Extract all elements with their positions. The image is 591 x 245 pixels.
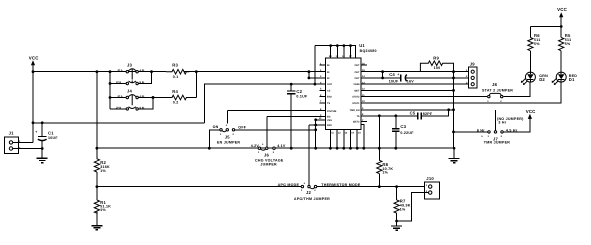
wire VSET row to U1 xyxy=(267,116,326,118)
svg-text:VCC: VCC xyxy=(526,109,536,114)
svg-text:OUT: OUT xyxy=(354,71,360,74)
left stubs xyxy=(320,65,326,103)
jumper J3 (4-pin current-set block, top) xyxy=(109,63,153,109)
power VCC (LED) xyxy=(557,7,567,28)
svg-text:J6: J6 xyxy=(264,153,270,158)
jumper J2 (APG/THM jumper) xyxy=(278,125,361,201)
svg-text:10UF: 10UF xyxy=(389,79,399,83)
ground (rail end) xyxy=(449,148,460,163)
wire VCC rail (top) xyxy=(33,71,326,73)
resistor R3 0.1 xyxy=(139,63,198,79)
connector J9 xyxy=(466,62,477,89)
svg-text:TMR JUMPER: TMR JUMPER xyxy=(484,141,510,145)
svg-text:4.2V: 4.2V xyxy=(251,144,260,148)
svg-text:C4: C4 xyxy=(389,72,395,77)
node APG divider junction xyxy=(96,185,99,188)
svg-text:VSS: VSS xyxy=(327,119,332,122)
svg-text:CE: CE xyxy=(327,90,331,93)
capacitor C3 0.22UF xyxy=(392,116,414,150)
svg-text:J1: J1 xyxy=(9,131,15,136)
svg-text:1%: 1% xyxy=(100,208,106,212)
resistor R4 0.2 xyxy=(139,72,197,105)
resistor R7 49.9K xyxy=(394,187,411,226)
svg-text:B IN: B IN xyxy=(140,106,145,109)
wire THM line (J2 to R8/J10) xyxy=(317,186,424,188)
svg-text:IN: IN xyxy=(327,77,330,80)
svg-text:1%: 1% xyxy=(382,171,388,175)
svg-text:JUMPER: JUMPER xyxy=(260,163,277,167)
svg-text:ISET: ISET xyxy=(354,90,360,93)
svg-text:J3: J3 xyxy=(127,63,133,68)
svg-text:R9: R9 xyxy=(433,55,439,60)
wire R2 to R1 xyxy=(96,172,98,200)
wire ground rail (VSS) xyxy=(97,147,454,149)
wire J1 pin2 to C1/ground xyxy=(13,148,43,150)
svg-text:OUT: OUT xyxy=(354,64,360,67)
wire master column (R9 node to ground) xyxy=(453,63,455,148)
svg-text:C1: C1 xyxy=(48,130,54,135)
svg-text:16V: 16V xyxy=(407,79,414,83)
ground (R7) xyxy=(391,226,402,230)
ground (C1) xyxy=(37,149,48,163)
svg-text:JP B: JP B xyxy=(116,106,122,109)
svg-text:TMR_EN: TMR_EN xyxy=(350,109,360,112)
top pins tie xyxy=(315,46,356,58)
svg-text:5%: 5% xyxy=(534,42,540,46)
capacitor C1 10UF xyxy=(35,121,58,148)
node VCC rail junction xyxy=(32,70,35,73)
svg-text:D2: D2 xyxy=(539,77,545,82)
svg-text:100: 100 xyxy=(434,66,441,70)
wire TMR line to J7 xyxy=(454,131,488,133)
svg-text:6 Hr: 6 Hr xyxy=(477,128,485,132)
svg-text:ON: ON xyxy=(213,125,219,129)
wire APG line (divider to J2) xyxy=(97,186,301,188)
wire J8 to D2 xyxy=(503,82,530,96)
svg-text:J2: J2 xyxy=(306,190,312,195)
svg-text:0.22UF: 0.22UF xyxy=(400,131,414,135)
svg-text:0.1UF: 0.1UF xyxy=(296,95,308,99)
wire J10 pin2 loop to R7 xyxy=(397,193,429,221)
resistor R6 511 xyxy=(528,27,541,73)
wire left divider column xyxy=(96,72,98,159)
resistor R8 10.7K xyxy=(377,116,394,187)
svg-text:OUT: OUT xyxy=(354,77,360,80)
svg-text:C5: C5 xyxy=(410,111,416,116)
svg-text:J9: J9 xyxy=(470,62,476,67)
wire EN row to U1 xyxy=(227,110,325,112)
svg-text:4.1V: 4.1V xyxy=(277,144,286,148)
svg-text:D1: D1 xyxy=(569,77,575,82)
svg-text:IN: IN xyxy=(327,64,330,67)
svg-text:J4: J4 xyxy=(127,89,133,94)
wire EN jumper right to column B xyxy=(235,129,316,131)
svg-text:82PF: 82PF xyxy=(423,112,433,116)
capacitor C5 82PF xyxy=(410,111,433,120)
svg-text:1%: 1% xyxy=(400,208,406,212)
svg-text:EN2: EN2 xyxy=(327,96,332,99)
ground (R1) xyxy=(91,211,102,230)
wire STAT2 row to J8 xyxy=(361,96,487,98)
svg-text:J10: J10 xyxy=(426,176,434,181)
wire STAT row (to master column) xyxy=(361,89,454,91)
svg-text:VCC: VCC xyxy=(29,56,39,61)
svg-text:0.1: 0.1 xyxy=(173,75,179,79)
wire ISET row with C5 xyxy=(361,110,449,116)
svg-text:IN: IN xyxy=(327,71,330,74)
svg-text:R4: R4 xyxy=(172,89,178,94)
wire LED supply rail xyxy=(530,26,561,28)
wire OUT row 3 (to J9 pin3) xyxy=(361,83,468,85)
IC U1 BQ24080 xyxy=(314,43,377,150)
svg-text:OFF: OFF xyxy=(238,126,246,130)
svg-text:PG/THM: PG/THM xyxy=(327,110,336,113)
wire STAT1 row to D1 xyxy=(361,82,561,103)
svg-text:VSS8: VSS8 xyxy=(353,83,360,86)
jumper J4 (4-pin current-set block, bottom) xyxy=(110,89,154,111)
svg-text:EN JUMPER: EN JUMPER xyxy=(217,140,240,144)
svg-text:BQ24080: BQ24080 xyxy=(360,49,377,53)
wire VCC column down to input rail xyxy=(32,72,34,123)
svg-text:JP B: JP B xyxy=(116,81,122,84)
wire input rail (to J1/C1) xyxy=(33,122,205,124)
svg-text:C2: C2 xyxy=(296,89,302,94)
svg-text:J5: J5 xyxy=(225,134,231,139)
svg-text:TS: TS xyxy=(356,115,359,118)
resistor R1 51.1K xyxy=(94,200,111,213)
svg-text:10UF: 10UF xyxy=(48,136,58,140)
svg-text:1%: 1% xyxy=(100,169,106,173)
wire OUT row 1 (to J9 pin1) xyxy=(361,71,468,73)
resistor R9 100 xyxy=(420,55,453,71)
svg-text:U1: U1 xyxy=(359,43,365,48)
svg-text:APG/THM JUMPER: APG/THM JUMPER xyxy=(294,197,330,201)
jumper J8 (STAT 2 jumper) xyxy=(482,82,513,103)
jumper J5 (EN jumper) xyxy=(213,111,247,145)
resistor R2 316K xyxy=(94,159,110,173)
svg-text:OUT: OUT xyxy=(327,83,333,86)
LED D2 GRN xyxy=(521,72,548,85)
power VCC (top-left) xyxy=(29,56,39,72)
wire IN pins tie xyxy=(309,72,326,78)
svg-text:ISET2: ISET2 xyxy=(353,121,360,124)
svg-text:5%: 5% xyxy=(565,42,571,46)
connector J10 xyxy=(425,176,440,199)
svg-text:PAD: PAD xyxy=(327,124,332,127)
svg-text:TS: TS xyxy=(327,102,330,105)
capacitor C2 0.1UF xyxy=(287,83,308,150)
bottom pins xyxy=(330,129,357,148)
jumper J7 (TMR jumper) xyxy=(477,110,524,145)
svg-text:R3: R3 xyxy=(172,63,178,68)
wire J1 pin1 to VCC rail xyxy=(13,123,33,143)
svg-text:3 Hr: 3 Hr xyxy=(498,121,506,125)
wire column B (EN/VSS tie) xyxy=(315,120,317,148)
svg-text:STAT1: STAT1 xyxy=(352,102,360,105)
svg-text:STAT 2 JUMPER: STAT 2 JUMPER xyxy=(482,89,513,93)
wire OUT row 2 with C4 xyxy=(361,77,468,79)
wire TMR-EN row xyxy=(361,109,454,111)
connector J1 xyxy=(5,131,21,154)
wire EN jumper left to ground rail xyxy=(209,130,219,148)
wire riser input rail to U1 OUT row xyxy=(205,84,326,123)
svg-text:C3: C3 xyxy=(400,124,406,129)
svg-text:JP A: JP A xyxy=(117,95,122,98)
jumper J6 (CHG VOLTAGE jumper) xyxy=(251,117,286,167)
svg-text:B IN: B IN xyxy=(140,81,145,84)
wire J7 to VCC xyxy=(504,118,530,132)
resistor R5 511 xyxy=(559,27,572,73)
svg-text:STAT2: STAT2 xyxy=(352,96,360,99)
svg-text:J8: J8 xyxy=(492,82,498,87)
svg-text:VCC: VCC xyxy=(557,7,567,12)
wire bottom-right pin to ground rail xyxy=(361,125,364,149)
LED D1 RED xyxy=(552,72,578,85)
wire right stub rows xyxy=(361,65,367,122)
capacitor C4 10UF 16V xyxy=(389,72,415,83)
wire OUT tie xyxy=(382,72,384,78)
svg-text:+: + xyxy=(35,130,37,134)
power VCC (TMR) xyxy=(526,109,536,119)
svg-text:+: + xyxy=(397,72,399,76)
svg-text:JP A: JP A xyxy=(117,69,122,72)
svg-text:0.2: 0.2 xyxy=(173,101,179,105)
